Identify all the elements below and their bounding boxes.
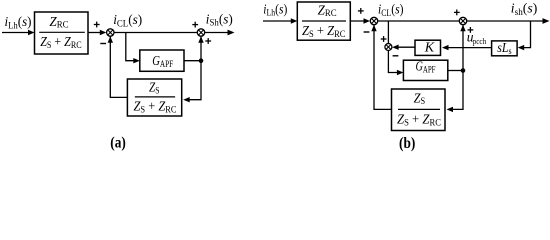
sign plus at S2b bottom input <box>468 27 474 33</box>
wire branch output down into sL_s (b) <box>522 21 531 48</box>
arrowhead input into box1b (b) <box>291 18 298 23</box>
wire S3b output down then right to G_APF input (b) <box>388 50 399 72</box>
wire G_APF output to node (a) <box>184 60 201 62</box>
sign plus at S2a bottom input <box>205 38 211 44</box>
summing junction S3b <box>385 44 392 51</box>
block sL_s (b) <box>492 41 517 56</box>
wire output (b) <box>467 20 546 22</box>
summing junction S1a <box>107 29 114 36</box>
wire G_APF output to node dot (b) <box>448 70 463 72</box>
svg-text:(b): (b) <box>399 135 415 152</box>
wire box1b to summing junction S1b <box>350 20 367 22</box>
node dot G_APF output joins vertical line (b) <box>461 68 466 73</box>
summing junction S2b <box>459 17 466 24</box>
arrowhead up into S2a bottom (a) <box>198 36 203 43</box>
sign plus at S2b left input <box>454 10 460 16</box>
block G_APF (b) <box>403 60 447 80</box>
arrowhead u_pcch into K right side (b) <box>442 45 449 50</box>
wire branch down into S3b top (b) <box>387 21 389 44</box>
fraction bar Z_S box (b) <box>398 108 440 110</box>
summing junction S2a <box>197 29 204 36</box>
wire K output to S3b (b) <box>397 46 416 48</box>
node dot G_APF output joins vertical line (a) <box>199 58 204 63</box>
wire vertical below S2a down to Z_S feedback box (a) <box>186 36 201 99</box>
wire vertical below S2b down to Z_S box (b) <box>450 25 464 110</box>
wire S1a to S2a (i_CL line) <box>114 32 197 34</box>
sign minus at S1a bottom input <box>100 43 106 45</box>
sign minus at S3b right input <box>393 55 399 57</box>
fraction bar box1a <box>39 31 85 33</box>
svg-text:K: K <box>424 40 435 55</box>
arrowhead up into S1b bottom (b) <box>371 25 376 32</box>
sign plus at S2a left input <box>192 22 198 28</box>
arrowhead up into S1a bottom (a) <box>108 36 113 43</box>
block Z_RC/(Z_S+Z_RC) (a) <box>35 12 89 54</box>
wire Z_S box output feedback up to S1a (a) <box>110 36 127 97</box>
wire box1a to summing junction S1a <box>88 32 104 34</box>
fraction bar Z_S box (a) <box>135 96 175 98</box>
arrowhead into G_APF input (a) <box>133 58 140 63</box>
block K (b) <box>415 40 441 55</box>
wire input (a) <box>2 32 29 34</box>
arrowhead into sL_s right side (b) <box>518 45 525 50</box>
wire u_pcch from sL_s to K (b) <box>445 47 492 49</box>
summing junction S1b <box>370 17 377 24</box>
fraction bar box1b <box>302 20 346 22</box>
arrowhead into Z_S box right side (b) <box>447 107 454 112</box>
wire S1b to S2b (i_CL line b) <box>378 20 460 22</box>
arrowhead into S1b (b) <box>364 18 371 23</box>
arrowhead input into box1a (a) <box>28 30 35 35</box>
block Z_S/(Z_S+Z_RC) (b) <box>392 89 446 131</box>
sign plus at S1a left input <box>94 22 100 28</box>
arrowhead up into S2b bottom (b) <box>460 25 465 32</box>
sign minus at S1b bottom input <box>364 31 370 33</box>
block G_APF (a) <box>140 50 184 71</box>
arrowhead K output into S3b (b) <box>392 45 399 50</box>
arrowhead into G_APF input (b) <box>397 70 404 75</box>
block Z_S/(Z_S+Z_RC) (a) <box>127 79 181 116</box>
arrowhead output (b) <box>543 18 550 24</box>
arrowhead into S1a (a) <box>100 30 107 35</box>
sign plus at S1b left input <box>358 8 364 14</box>
arrowhead output (a) <box>228 30 235 36</box>
wire input (b) <box>263 20 292 22</box>
svg-text:pcch: pcch <box>473 36 487 46</box>
block Z_RC/(Z_S+Z_RC) (b) <box>297 2 350 40</box>
svg-text:(a): (a) <box>110 134 126 151</box>
sign plus at S3b top input <box>381 36 387 42</box>
wire Z_S box output feedback left and up to S1b (b) <box>374 25 392 110</box>
wire output (a) <box>205 32 231 34</box>
wire branch down to G_APF (a) <box>126 33 137 61</box>
arrowhead into Z_S box right side (a) <box>183 97 190 102</box>
